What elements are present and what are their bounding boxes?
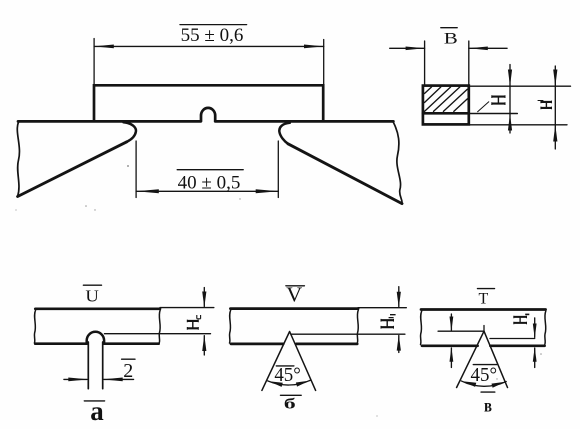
svg-text:a: a xyxy=(90,396,104,426)
svg-text:40 ± 0,5: 40 ± 0,5 xyxy=(178,173,241,194)
svg-text:55 ± 0,6: 55 ± 0,6 xyxy=(181,25,244,46)
svg-text:45°: 45° xyxy=(471,365,498,386)
svg-text:B: B xyxy=(444,31,458,48)
svg-text:V: V xyxy=(286,283,302,307)
svg-text:в: в xyxy=(484,396,492,416)
svg-text:2: 2 xyxy=(123,360,133,382)
svg-text:T: T xyxy=(479,290,489,307)
svg-text:U: U xyxy=(85,287,99,306)
svg-text:45°: 45° xyxy=(274,365,301,386)
svg-text:б: б xyxy=(284,397,296,413)
